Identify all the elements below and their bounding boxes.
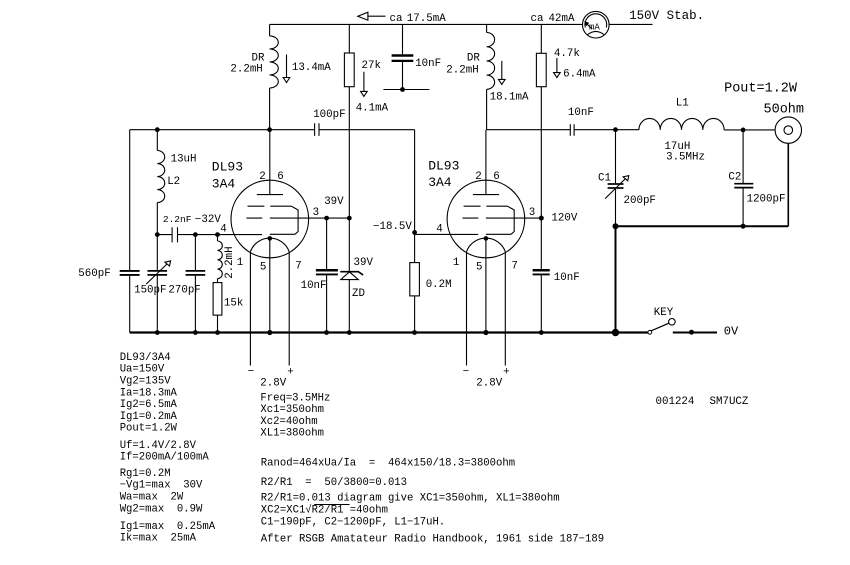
svg-text:6.4mA: 6.4mA [563, 68, 596, 80]
svg-text:SM7UCZ: SM7UCZ [710, 396, 749, 408]
wire: DR1 bottom to anode wire [269, 88, 271, 130]
svg-text:10nF: 10nF [568, 107, 594, 119]
svg-text:10nF: 10nF [301, 280, 327, 292]
resistor 0.2M lead [414, 232, 416, 262]
wire: L2 bottom to grid wire [156, 203, 158, 235]
svg-text:4.1mA: 4.1mA [356, 102, 389, 114]
wire: DR2 bottom to anode of V2 [486, 89, 488, 129]
resistor 27k body [344, 53, 354, 87]
switch KEY lever [651, 323, 669, 331]
svg-text:After RSGB Amatateur Radio Han: After RSGB Amatateur Radio Handbook, 196… [261, 533, 604, 545]
capacitor 10nF (screen decoupling) lead from rail [402, 24, 404, 54]
svg-text:Ig1=0.2mA: Ig1=0.2mA [120, 411, 178, 423]
svg-text:15k: 15k [224, 297, 243, 309]
choke DR1 2.2mH lead from rail [269, 24, 271, 36]
variable arrow through 150pF [146, 264, 167, 284]
svg-text:ca: ca [390, 13, 403, 25]
svg-text:DL93/3A4: DL93/3A4 [120, 352, 171, 364]
node: bus / 10nF-2 [539, 330, 544, 335]
svg-text:150V Stab.: 150V Stab. [629, 9, 704, 23]
svg-text:DR: DR [252, 52, 265, 64]
resistor 4.7k lead from rail [540, 24, 542, 53]
resistor 0.2M body [410, 263, 420, 296]
svg-text:−Vg1=max 30V: −Vg1=max 30V [120, 480, 203, 492]
node: bus / V1 pin5 [267, 330, 272, 335]
svg-text:2.2mH: 2.2mH [230, 64, 262, 76]
wire: V2 filament pin7 [504, 252, 506, 366]
zener ZD lead from pin3 node [348, 218, 350, 271]
svg-text:Pout=1.2W: Pout=1.2W [120, 423, 178, 435]
node: on 0V wire [689, 330, 694, 335]
svg-text:Wg2=max 0.9W: Wg2=max 0.9W [120, 503, 203, 515]
svg-text:C1−190pF, C2−1200pF, L1−17uH.: C1−190pF, C2−1200pF, L1−17uH. [261, 516, 445, 528]
svg-text:Freq=3.5MHz: Freq=3.5MHz [260, 393, 330, 405]
inductor L1 coil [639, 118, 724, 130]
node: C1 top [613, 127, 618, 132]
node: bus / 150pF [155, 330, 160, 335]
svg-text:Wa=max 2W: Wa=max 2W [120, 492, 184, 504]
svg-text:0V: 0V [724, 324, 739, 338]
wire: V2 filament pin1 [466, 252, 468, 366]
svg-text:2.8V: 2.8V [476, 378, 502, 390]
current arrow 6.4mA [556, 58, 558, 73]
svg-text:Uf=1.4V/2.8V: Uf=1.4V/2.8V [120, 440, 197, 452]
svg-text:001224: 001224 [656, 396, 695, 408]
svg-text:If=200mA/100mA: If=200mA/100mA [120, 452, 210, 464]
wire: C1 bottom to ground return (thick) [615, 189, 617, 227]
wire: V1 filament pin5 to bus [269, 238, 271, 332]
svg-text:100pF: 100pF [313, 109, 345, 121]
svg-text:XL1=380ohm: XL1=380ohm [260, 428, 324, 440]
node: bus / ZD [347, 330, 352, 335]
capacitor 270pF branch [194, 235, 196, 333]
svg-text:XC2=XC1√R2/R1 =40ohm: XC2=XC1√R2/R1 =40ohm [261, 503, 388, 516]
svg-text:−32V: −32V [195, 214, 221, 226]
switch KEY pole circle [669, 319, 676, 326]
wire: V1 filament pin1 [249, 252, 251, 366]
wire: connector down lead [787, 143, 789, 226]
variable arrow through C1 [605, 179, 625, 199]
capacitor 2.2nF plates [172, 227, 177, 242]
svg-text:+: + [287, 367, 293, 379]
svg-text:+: + [503, 367, 509, 379]
svg-text:3A4: 3A4 [428, 175, 452, 190]
svg-text:ZD: ZD [352, 288, 365, 300]
overline of sqrt R2/R1 [314, 504, 349, 506]
current arrow ca 17.5mA pointing left [368, 15, 386, 17]
svg-text:17.5mA: 17.5mA [407, 13, 446, 25]
svg-text:DR: DR [467, 52, 480, 64]
wire: coil to 15k [217, 279, 219, 283]
node: grid wire / 270pF [193, 232, 198, 237]
wire: V1 anode net horizontal [130, 129, 415, 131]
svg-text:R2/R1=0.013 diagram give XC1=3: R2/R1=0.013 diagram give XC1=350ohm, XL1… [261, 493, 560, 505]
node: pin3 / 27k-ZD [347, 216, 352, 221]
capacitor 10nF (coupling) plates [570, 124, 574, 135]
svg-text:13uH: 13uH [171, 154, 197, 166]
zener ZD anode triangle [341, 272, 359, 280]
node: return / C1 [613, 223, 619, 229]
zener ZD cathode bar with wing [340, 272, 363, 275]
capacitor C2 plates [734, 183, 753, 185]
svg-text:27k: 27k [362, 60, 381, 72]
wire: C1 node down to bus (thick) [615, 226, 617, 332]
wire: C2 bottom lead [742, 188, 744, 226]
svg-text:4.7k: 4.7k [554, 48, 580, 60]
svg-text:18.1mA: 18.1mA [490, 92, 529, 104]
capacitor 150pF plates [148, 270, 168, 272]
svg-text:Ua=150V: Ua=150V [120, 364, 165, 376]
node: C2 top [741, 127, 746, 132]
wire: V1 pin3 lead to 27k/ZD node [292, 217, 349, 219]
svg-text:Ia=18.3mA: Ia=18.3mA [120, 387, 178, 399]
svg-text:L1: L1 [676, 97, 689, 109]
capacitor C1 plates [608, 183, 624, 185]
svg-text:0.2M: 0.2M [426, 279, 452, 291]
svg-text:2.8V: 2.8V [260, 378, 286, 390]
svg-text:3.5MHz: 3.5MHz [666, 152, 705, 164]
svg-text:C1: C1 [598, 173, 611, 185]
svg-text:−18.5V: −18.5V [373, 221, 412, 233]
capacitor C1 (variable) top lead [615, 130, 617, 184]
wire: ZD to bus [348, 280, 350, 333]
wire: 0.2M to bus [414, 296, 416, 333]
switch KEY contact [648, 330, 652, 334]
svg-text:39V: 39V [354, 257, 374, 269]
wire: 4.7k bottom down to V2 pin3 node [540, 87, 542, 218]
wire: V2 grid lead [415, 233, 479, 235]
inductor L2 13uH lead [156, 130, 158, 151]
resistor 4.7k body [536, 53, 546, 86]
node: bus / V2 pin5 [483, 330, 488, 335]
svg-text:−: − [463, 366, 469, 378]
node: return / C2 [741, 224, 746, 229]
node: bus / 15k [215, 330, 220, 335]
capacitor C2 top lead [742, 130, 744, 183]
svg-text:Ranod=464xUa/Ia = 464x150/18: Ranod=464xUa/Ia = 464x150/18.3=3800ohm [261, 457, 515, 469]
svg-text:150pF: 150pF [134, 285, 166, 297]
svg-text:120V: 120V [551, 213, 577, 225]
svg-text:39V: 39V [324, 196, 344, 208]
svg-text:Vg2=135V: Vg2=135V [120, 376, 172, 388]
svg-text:200pF: 200pF [624, 195, 656, 207]
wire: 15k to bus [217, 315, 219, 332]
node: pin3 / 10nF [324, 216, 329, 221]
svg-text:Xc1=350ohm: Xc1=350ohm [260, 404, 324, 416]
svg-text:C2: C2 [728, 172, 741, 184]
wire: L1 to connector [724, 129, 775, 131]
wire: after KEY to 0V [673, 332, 717, 334]
capacitor 560pF plates [120, 270, 140, 272]
capacitor 10nF at V1 pin3 [326, 218, 328, 332]
wire: V1 grid net with 2.2nF [157, 234, 262, 236]
current arrow 4.1mA [363, 72, 365, 92]
wire: stub at 10nF bottom [383, 89, 429, 91]
svg-text:560pF: 560pF [78, 268, 110, 280]
wire: V2 pin3 lead to 4.7k node [508, 217, 541, 219]
node: bus / C1 return [612, 329, 619, 336]
capacitor 10nF plates [533, 269, 550, 272]
wire: output ground return horizontal (thick) [616, 225, 789, 227]
inductor 2.2mH (grid) lead [217, 235, 219, 241]
svg-text:ca: ca [531, 13, 544, 25]
svg-text:KEY: KEY [654, 307, 674, 319]
svg-text:DL93: DL93 [212, 160, 243, 175]
connector 50ohm output [775, 117, 801, 143]
tube V1 DL93/3A4 [220, 130, 319, 274]
node: grid wire / 2.2mH [215, 232, 220, 237]
wire: 100pF net down to grid of V2 [414, 130, 416, 233]
capacitor 150pF (variable) branch [156, 235, 158, 333]
inductor 2.2mH coil [218, 241, 223, 279]
node: -18.5V grid node of V2 [412, 230, 417, 235]
svg-text:Pout=1.2W: Pout=1.2W [724, 81, 798, 96]
svg-text:Ig1=max 0.25mA: Ig1=max 0.25mA [120, 521, 216, 533]
inductor L2 coil [157, 151, 164, 203]
svg-text:42mA: 42mA [549, 13, 575, 25]
node: bus / 270pF [193, 330, 198, 335]
capacitor 10nF at V2 pin3 [540, 218, 542, 332]
wire: V2 filament pin5 to bus [485, 238, 487, 332]
capacitor 10nF plates [392, 54, 414, 57]
svg-text:2.2mH: 2.2mH [446, 65, 478, 77]
wire: V1 filament pin7 [288, 252, 290, 366]
svg-text:2.2nF: 2.2nF [163, 214, 192, 225]
node: 10nF bottom junction [400, 87, 405, 92]
node: anode wire / L2 top [155, 127, 160, 132]
capacitor 270pF plates [186, 270, 206, 272]
choke DR2 2.2mH lead from rail [486, 24, 488, 32]
node: anode wire / DR1 / V1 anode [267, 127, 272, 132]
choke DR1 coil [270, 36, 279, 88]
svg-text:Xc2=40ohm: Xc2=40ohm [260, 416, 317, 428]
svg-text:10nF: 10nF [415, 58, 441, 70]
svg-text:−: − [248, 366, 254, 378]
svg-text:1200pF: 1200pF [747, 193, 786, 205]
svg-text:Ik=max 25mA: Ik=max 25mA [120, 532, 197, 544]
svg-text:Rg1=0.2M: Rg1=0.2M [120, 468, 171, 480]
capacitor 10nF plates [316, 269, 338, 272]
wire: ground bus 0V [130, 331, 648, 333]
svg-text:R2/R1 = 50/3800=0.013: R2/R1 = 50/3800=0.013 [261, 477, 407, 489]
svg-text:50ohm: 50ohm [764, 102, 805, 117]
svg-text:3A4: 3A4 [212, 176, 236, 191]
wire: 10nF bottom lead [402, 62, 404, 90]
svg-text:2.2mH: 2.2mH [224, 246, 236, 278]
svg-text:Ig2=6.5mA: Ig2=6.5mA [120, 399, 178, 411]
capacitor 100pF plates (feedback) [315, 123, 319, 136]
svg-text:270pF: 270pF [168, 285, 200, 297]
current arrow 18.1mA [501, 61, 503, 80]
node: bus / 10nF [324, 330, 329, 335]
choke DR2 coil [487, 33, 495, 90]
node: bus / 0.2M [412, 330, 417, 335]
wire: left vertical with 560pF [129, 130, 131, 333]
wire: 27k bottom down to pin3 node [348, 87, 350, 218]
resistor 15k body [213, 283, 222, 316]
svg-text:10nF: 10nF [554, 272, 580, 284]
node: V2 pin3 / 4.7k [539, 216, 544, 221]
node: grid wire / L2-150pF [155, 232, 160, 237]
svg-text:13.4mA: 13.4mA [292, 62, 331, 74]
wire: 150V supply rail [270, 23, 653, 25]
wire: V2 anode to output coupling cap [487, 129, 639, 131]
svg-text:mA: mA [589, 22, 600, 32]
svg-text:DL93: DL93 [428, 158, 459, 173]
current arrow 13.4mA [286, 55, 288, 78]
tube V2 DL93/3A4 [436, 130, 535, 274]
meter mA (M1) [583, 11, 610, 38]
svg-text:L2: L2 [167, 176, 180, 188]
resistor 27k lead from rail [348, 24, 350, 53]
